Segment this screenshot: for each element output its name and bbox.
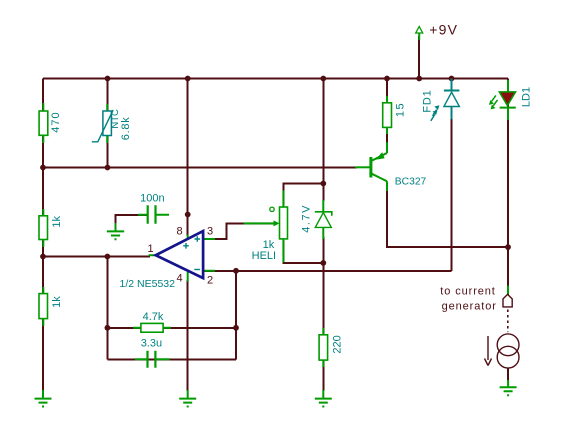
wire pin4 branch x=187.7 down to ground bbox=[187, 280, 189, 391]
wire third rail (op-amp output net) bbox=[43, 256, 150, 258]
svg-text:BC327: BC327 bbox=[395, 177, 427, 188]
junction pin2 line / feedback column bbox=[233, 268, 239, 274]
junction pot top / zener top bbox=[320, 181, 326, 187]
wire LD1 column x=508 bbox=[507, 79, 509, 296]
wire R15 branch x=387 bbox=[386, 79, 388, 105]
wire pin8 branch x=187.7 bbox=[187, 79, 189, 237]
wire NTC branch x=107.5 bbox=[107, 79, 109, 168]
svg-text:6.8k: 6.8k bbox=[120, 117, 132, 141]
svg-text:+9V: +9V bbox=[429, 22, 458, 38]
wire zener to 220 to ground x=323.3 bbox=[322, 237, 324, 391]
ground left column bbox=[35, 390, 52, 407]
wire FD1 anode down bbox=[451, 118, 453, 271]
LED LD1 bbox=[489, 80, 533, 120]
op-amp U 1/2 NE5532 bbox=[120, 226, 216, 291]
wire pot bottom to zener bottom bbox=[283, 240, 323, 263]
svg-text:1/2 NE5532: 1/2 NE5532 bbox=[120, 278, 176, 290]
svg-text:to current: to current bbox=[440, 286, 495, 298]
photodiode FD1 bbox=[422, 79, 460, 121]
svg-text:4.7V: 4.7V bbox=[301, 204, 313, 233]
transistor Q BC327 bbox=[355, 142, 427, 191]
junction collector line / LD1 column bbox=[505, 244, 511, 250]
zener diode 4.7V bbox=[301, 200, 332, 239]
ground current source bbox=[500, 380, 517, 395]
svg-text:470: 470 bbox=[50, 111, 62, 132]
wire collector to LD1 column bbox=[387, 190, 508, 247]
svg-text:4.7k: 4.7k bbox=[143, 311, 164, 323]
svg-text:4: 4 bbox=[176, 273, 182, 285]
wire 3.3u line bbox=[107, 358, 236, 360]
wire +9V stub bbox=[418, 36, 420, 79]
svg-text:15: 15 bbox=[395, 102, 407, 117]
svg-text:FD1: FD1 bbox=[422, 89, 434, 112]
resistor R 15 bbox=[383, 96, 407, 134]
capacitor 3.3u bbox=[135, 338, 170, 368]
wire pin2 net horizontal bbox=[203, 270, 452, 272]
svg-text:generator: generator bbox=[442, 301, 497, 313]
junction feedback column / output rail bbox=[105, 254, 111, 260]
junction NTC bottom / second rail bbox=[105, 165, 111, 171]
junction 100n / pin8 branch bbox=[185, 212, 191, 218]
wire zener branch x=323.3 bbox=[322, 79, 324, 202]
wire pin3 to pot wiper bbox=[203, 223, 276, 239]
resistor R 1k lower bbox=[39, 287, 63, 326]
svg-text:8: 8 bbox=[176, 226, 182, 238]
svg-text:3.3u: 3.3u bbox=[141, 338, 162, 350]
wire 100n to ground bbox=[116, 215, 148, 225]
wire left column x=43 bbox=[42, 79, 44, 392]
resistor R 470 bbox=[39, 103, 62, 143]
thermistor NTC 6.8k bbox=[92, 104, 132, 143]
junction 4.7k / feedback column right bbox=[233, 325, 239, 331]
junction NTC top on +9V rail bbox=[105, 76, 111, 82]
wire top rail +9V net bbox=[43, 78, 508, 80]
wire 4.7k line bbox=[107, 327, 236, 329]
ground for 100n bbox=[107, 223, 124, 239]
capacitor 100n bbox=[138, 193, 169, 224]
svg-text:2: 2 bbox=[207, 275, 213, 287]
supply arrow +9V bbox=[416, 22, 459, 41]
potentiometer 1k HELI bbox=[244, 191, 288, 263]
junction FD1 branch on +9V rail bbox=[449, 76, 455, 82]
ground 220 column bbox=[315, 390, 332, 407]
wire feedback column x=107.4 bbox=[106, 257, 108, 360]
connector pin to current generator bbox=[440, 286, 512, 313]
junction left column / second rail bbox=[40, 165, 46, 171]
dashed link to current source bbox=[507, 310, 509, 333]
wire second rail (NTC/base net) bbox=[43, 167, 357, 169]
current source bbox=[485, 334, 520, 381]
resistor R 4.7k bbox=[133, 311, 171, 332]
junction pin8 branch on +9V rail bbox=[185, 76, 191, 82]
svg-text:1: 1 bbox=[147, 243, 153, 255]
svg-text:1k: 1k bbox=[51, 215, 63, 227]
svg-text:3: 3 bbox=[207, 226, 213, 238]
ground op-amp pin4 bbox=[179, 390, 196, 407]
svg-text:1k: 1k bbox=[51, 296, 63, 308]
svg-text:100n: 100n bbox=[140, 193, 164, 205]
wire pot top to zener top bbox=[283, 184, 323, 206]
svg-text:HELI: HELI bbox=[252, 250, 276, 262]
junction 4.7k / feedback column left bbox=[105, 325, 111, 331]
junction R15 branch on +9V rail bbox=[384, 76, 390, 82]
wire pin2 feedback column x=236 bbox=[235, 271, 237, 360]
junction pot bottom / zener bottom bbox=[320, 260, 326, 266]
resistor R 1k upper bbox=[39, 209, 63, 247]
junction +9V stub on rail bbox=[416, 76, 422, 82]
wire R15 to emitter bbox=[386, 126, 388, 148]
junction zener branch on +9V rail bbox=[320, 76, 326, 82]
junction left column / output rail bbox=[40, 254, 46, 260]
svg-text:220: 220 bbox=[332, 335, 344, 353]
svg-text:LD1: LD1 bbox=[521, 87, 533, 107]
resistor R 220 bbox=[319, 328, 343, 367]
